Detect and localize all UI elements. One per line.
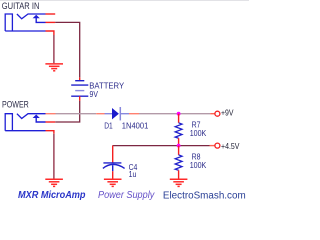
wire salmon segment before diode	[96, 113, 104, 115]
wire C4 branch down (red)	[112, 146, 114, 163]
jack J2 tip contact	[17, 114, 46, 119]
svg-text:100K: 100K	[190, 129, 207, 138]
terminal +4.5V circle	[215, 143, 220, 148]
battery B1 plates	[75, 80, 84, 82]
junction node at R7 top	[177, 112, 181, 116]
diode D1 cathode bar	[119, 107, 121, 120]
svg-text:+9V: +9V	[221, 109, 234, 118]
wire salmon segment after diode	[129, 113, 139, 115]
ground (guitar jack)	[45, 64, 63, 71]
svg-text:D1: D1	[104, 122, 113, 131]
svg-text:Power Supply: Power Supply	[98, 190, 155, 201]
wire power tip to diode (mauve)	[56, 113, 97, 115]
svg-text:MXR MicroAmp: MXR MicroAmp	[18, 190, 86, 201]
wire +9V rail (mauve)	[139, 113, 210, 115]
svg-text:GUITAR IN: GUITAR IN	[2, 1, 40, 11]
wire battery minus to power jack ring (maroon)	[55, 101, 79, 122]
diode D1 triangle	[112, 108, 119, 119]
svg-text:1u: 1u	[129, 170, 137, 179]
resistor R7 zigzag	[175, 123, 182, 138]
capacitor C4 curved plate	[103, 164, 125, 168]
ground (R8)	[170, 179, 188, 186]
wire power sleeve to ground (red)	[46, 131, 54, 134]
svg-text:POWER: POWER	[2, 99, 29, 109]
battery B1 bottom lead (red)	[79, 96, 81, 101]
diode D1 anode lead	[105, 113, 113, 115]
diode D1 cathode lead	[120, 113, 129, 115]
resistor R8 top lead (red)	[178, 146, 180, 155]
svg-text:R8: R8	[192, 152, 201, 161]
svg-text:1N4001: 1N4001	[122, 122, 149, 131]
wire tip stub (red)	[46, 13, 56, 15]
svg-text:9V: 9V	[90, 90, 99, 99]
resistor R8 bottom lead (red)	[178, 170, 180, 179]
junction node at R7/R8	[177, 144, 181, 148]
svg-text:ElectroSmash.com: ElectroSmash.com	[163, 190, 246, 201]
capacitor C4 top plate	[103, 162, 121, 164]
wire sleeve down (maroon)	[53, 35, 55, 63]
svg-text:+4.5V: +4.5V	[221, 142, 240, 151]
battery B1 top lead (red)	[79, 77, 81, 80]
jack J1 tip contact	[17, 14, 46, 19]
svg-text:100K: 100K	[190, 161, 207, 170]
jack J1 switch arrow	[33, 15, 40, 18]
wire salmon to +4.5V terminal	[210, 145, 215, 147]
wire ring stub (red)	[46, 21, 56, 23]
jack J2 POWER body	[5, 114, 12, 131]
jack J1 GUITAR IN body	[5, 14, 12, 31]
resistor R7 bottom lead (red)	[178, 138, 180, 145]
top border line	[0, 0, 249, 2]
wire power tip stub (salmon)	[46, 113, 56, 115]
wire sleeve corner (red)	[46, 31, 54, 35]
wire salmon to +9V terminal	[210, 113, 215, 115]
jack J1 sleeve line (blue)	[5, 30, 45, 32]
wire +4.5V rail (maroon)	[113, 145, 210, 147]
jack J2 switch arrow	[33, 115, 40, 119]
resistor R8 zigzag	[175, 155, 182, 170]
wire power ring stub (red)	[46, 121, 56, 123]
ground (C4)	[104, 179, 122, 186]
capacitor C4 bottom stub (blue)	[112, 165, 114, 171]
capacitor C4 bottom lead (red)	[112, 171, 114, 179]
jack J2 sleeve line (blue)	[5, 130, 45, 132]
terminal +9V circle	[215, 111, 220, 116]
wire ring to battery (maroon)	[55, 22, 79, 77]
svg-text:R7: R7	[192, 120, 201, 129]
ground (power jack)	[45, 179, 63, 186]
resistor R7 top lead (red)	[178, 114, 180, 123]
